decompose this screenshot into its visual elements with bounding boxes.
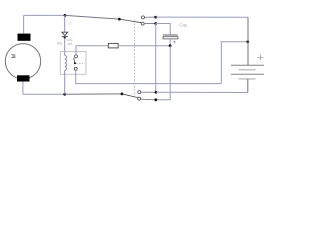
svg-text:M: M (12, 54, 18, 58)
battery BT1 top lead (247, 17, 249, 65)
wire relay top contact pin up and right to resistor (76, 46, 108, 55)
relay K1 pivot dot (74, 62, 76, 64)
wire resistor right to cap bottom node (118, 45, 170, 47)
relay K1 blade (74, 58, 75, 63)
switch SW1a throw 1 circle (142, 16, 145, 19)
node battery plus junction dot (246, 40, 249, 43)
svg-text:RdL: RdL (57, 42, 63, 46)
wire right vertical relay common to battery plus (221, 42, 248, 84)
node cap bottom junction dot (169, 44, 172, 47)
wire cap top lead (156, 24, 171, 35)
relay K1 refdes label (57, 42, 63, 46)
capacitor C1 bottom plate (163, 37, 178, 39)
wire bottom throw2 to node dot (141, 98, 156, 101)
switch SW1a blade (119, 19, 141, 23)
battery BT1 plate short 1 (239, 69, 256, 71)
switch gang dashed link (133, 20, 135, 96)
wire top from motor to diode node (24, 14, 65, 16)
battery BT1 plus sign (258, 55, 264, 61)
diode D1 cathode bar (62, 36, 68, 38)
wire sloped feed to bottom switch pole (65, 93, 122, 95)
motor M1 body circle (5, 44, 40, 79)
wire bottom from motor to coil node (23, 93, 65, 95)
motor M1 top brush (18, 34, 31, 41)
wire motor bottom pin down (22, 82, 24, 95)
wire throw1 to node dot (145, 16, 156, 18)
wire cap node down to bottom throw2 (156, 46, 170, 100)
wire cross-connect vertical throw2-top to throw1-bottom (155, 24, 157, 93)
wire motor top pin up (23, 15, 25, 33)
diode D1 refdes label (69, 22, 71, 26)
diode D1 anode wire (64, 15, 66, 32)
capacitor C1 label (179, 23, 187, 28)
diode D1 value label (67, 38, 73, 42)
battery BT1 plate long 1 (231, 64, 264, 66)
wire throw2 to node dot (144, 23, 156, 25)
node bottom throw2 dot (154, 98, 157, 101)
switch SW1b throw 1 circle (138, 91, 141, 94)
motor M1 label M (rotated) (12, 54, 18, 58)
wire diode cathode to relay coil (64, 38, 66, 52)
wire top right to battery plus (156, 16, 248, 18)
wire relay coil bottom pin (64, 74, 66, 94)
relay K1 box (60, 52, 86, 75)
relay K1 bottom contact circle (74, 67, 77, 70)
svg-text:4dL: 4dL (67, 42, 73, 46)
switch SW1b pole dot (121, 93, 124, 96)
switch SW1b blade (122, 94, 138, 98)
node A junction dot (top of diode) (64, 14, 67, 17)
wire bottom to battery minus (156, 91, 248, 93)
battery BT1 plate short 2 (239, 78, 256, 80)
svg-text:Cap: Cap (179, 23, 187, 28)
switch SW1a pole dot (118, 18, 121, 21)
capacitor C1 plus sign (173, 40, 176, 43)
wire sloped feed to top switch pole (65, 15, 119, 19)
capacitor C1 top plate (163, 34, 178, 36)
relay K1 value label (67, 42, 73, 46)
motor M1 bottom brush (17, 75, 30, 81)
relay K1 coil (65, 52, 67, 75)
diode D1 pin dot (64, 37, 66, 39)
svg-text:2: 2 (69, 22, 71, 26)
wire bottom throw1 to node dot (141, 91, 156, 93)
resistor R1 body (108, 43, 118, 48)
node bottom throw1 dot (155, 91, 158, 94)
switch SW1a throw 2 circle (141, 22, 144, 25)
diode D1 triangle (62, 32, 68, 35)
node top throw2 dot (154, 22, 157, 25)
wire cap bottom lead to node (169, 39, 171, 46)
node coil bottom junction dot (63, 93, 66, 96)
wire relay bottom contact pin down and right (76, 70, 222, 83)
battery BT1 bottom lead (247, 79, 249, 93)
relay K1 top contact circle (75, 55, 78, 58)
switch SW1b throw 2 circle (138, 97, 141, 100)
node top throw1 dot (154, 16, 157, 19)
battery BT1 plate long 2 (231, 73, 264, 75)
relay K1 actuator dashed link (76, 62, 85, 64)
